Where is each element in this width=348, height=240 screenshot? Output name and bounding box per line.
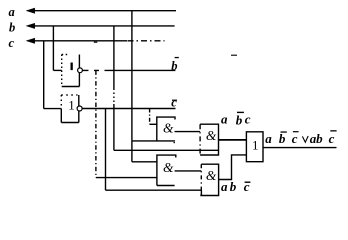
svg-text:&: & <box>206 168 217 183</box>
svg-text:c: c <box>171 96 177 110</box>
svg-text:&: & <box>206 128 217 143</box>
svg-text:b: b <box>279 131 286 146</box>
svg-text:c: c <box>245 112 251 127</box>
svg-text:c: c <box>329 131 335 146</box>
svg-text:a: a <box>221 179 228 194</box>
svg-text:a: a <box>221 112 228 127</box>
svg-text:b: b <box>9 21 15 35</box>
svg-text:1: 1 <box>252 137 259 152</box>
svg-text:b: b <box>171 59 177 73</box>
svg-text:&: & <box>163 120 174 135</box>
svg-text:b: b <box>236 112 243 127</box>
svg-text:c: c <box>292 131 298 146</box>
svg-text:b: b <box>230 179 237 194</box>
svg-text:1: 1 <box>68 98 75 113</box>
svg-text:&: & <box>163 160 174 175</box>
svg-text:a: a <box>9 5 15 19</box>
svg-text:a: a <box>265 131 272 146</box>
svg-text:c: c <box>9 36 15 50</box>
svg-text:b: b <box>316 131 323 146</box>
svg-text:c: c <box>244 179 250 194</box>
